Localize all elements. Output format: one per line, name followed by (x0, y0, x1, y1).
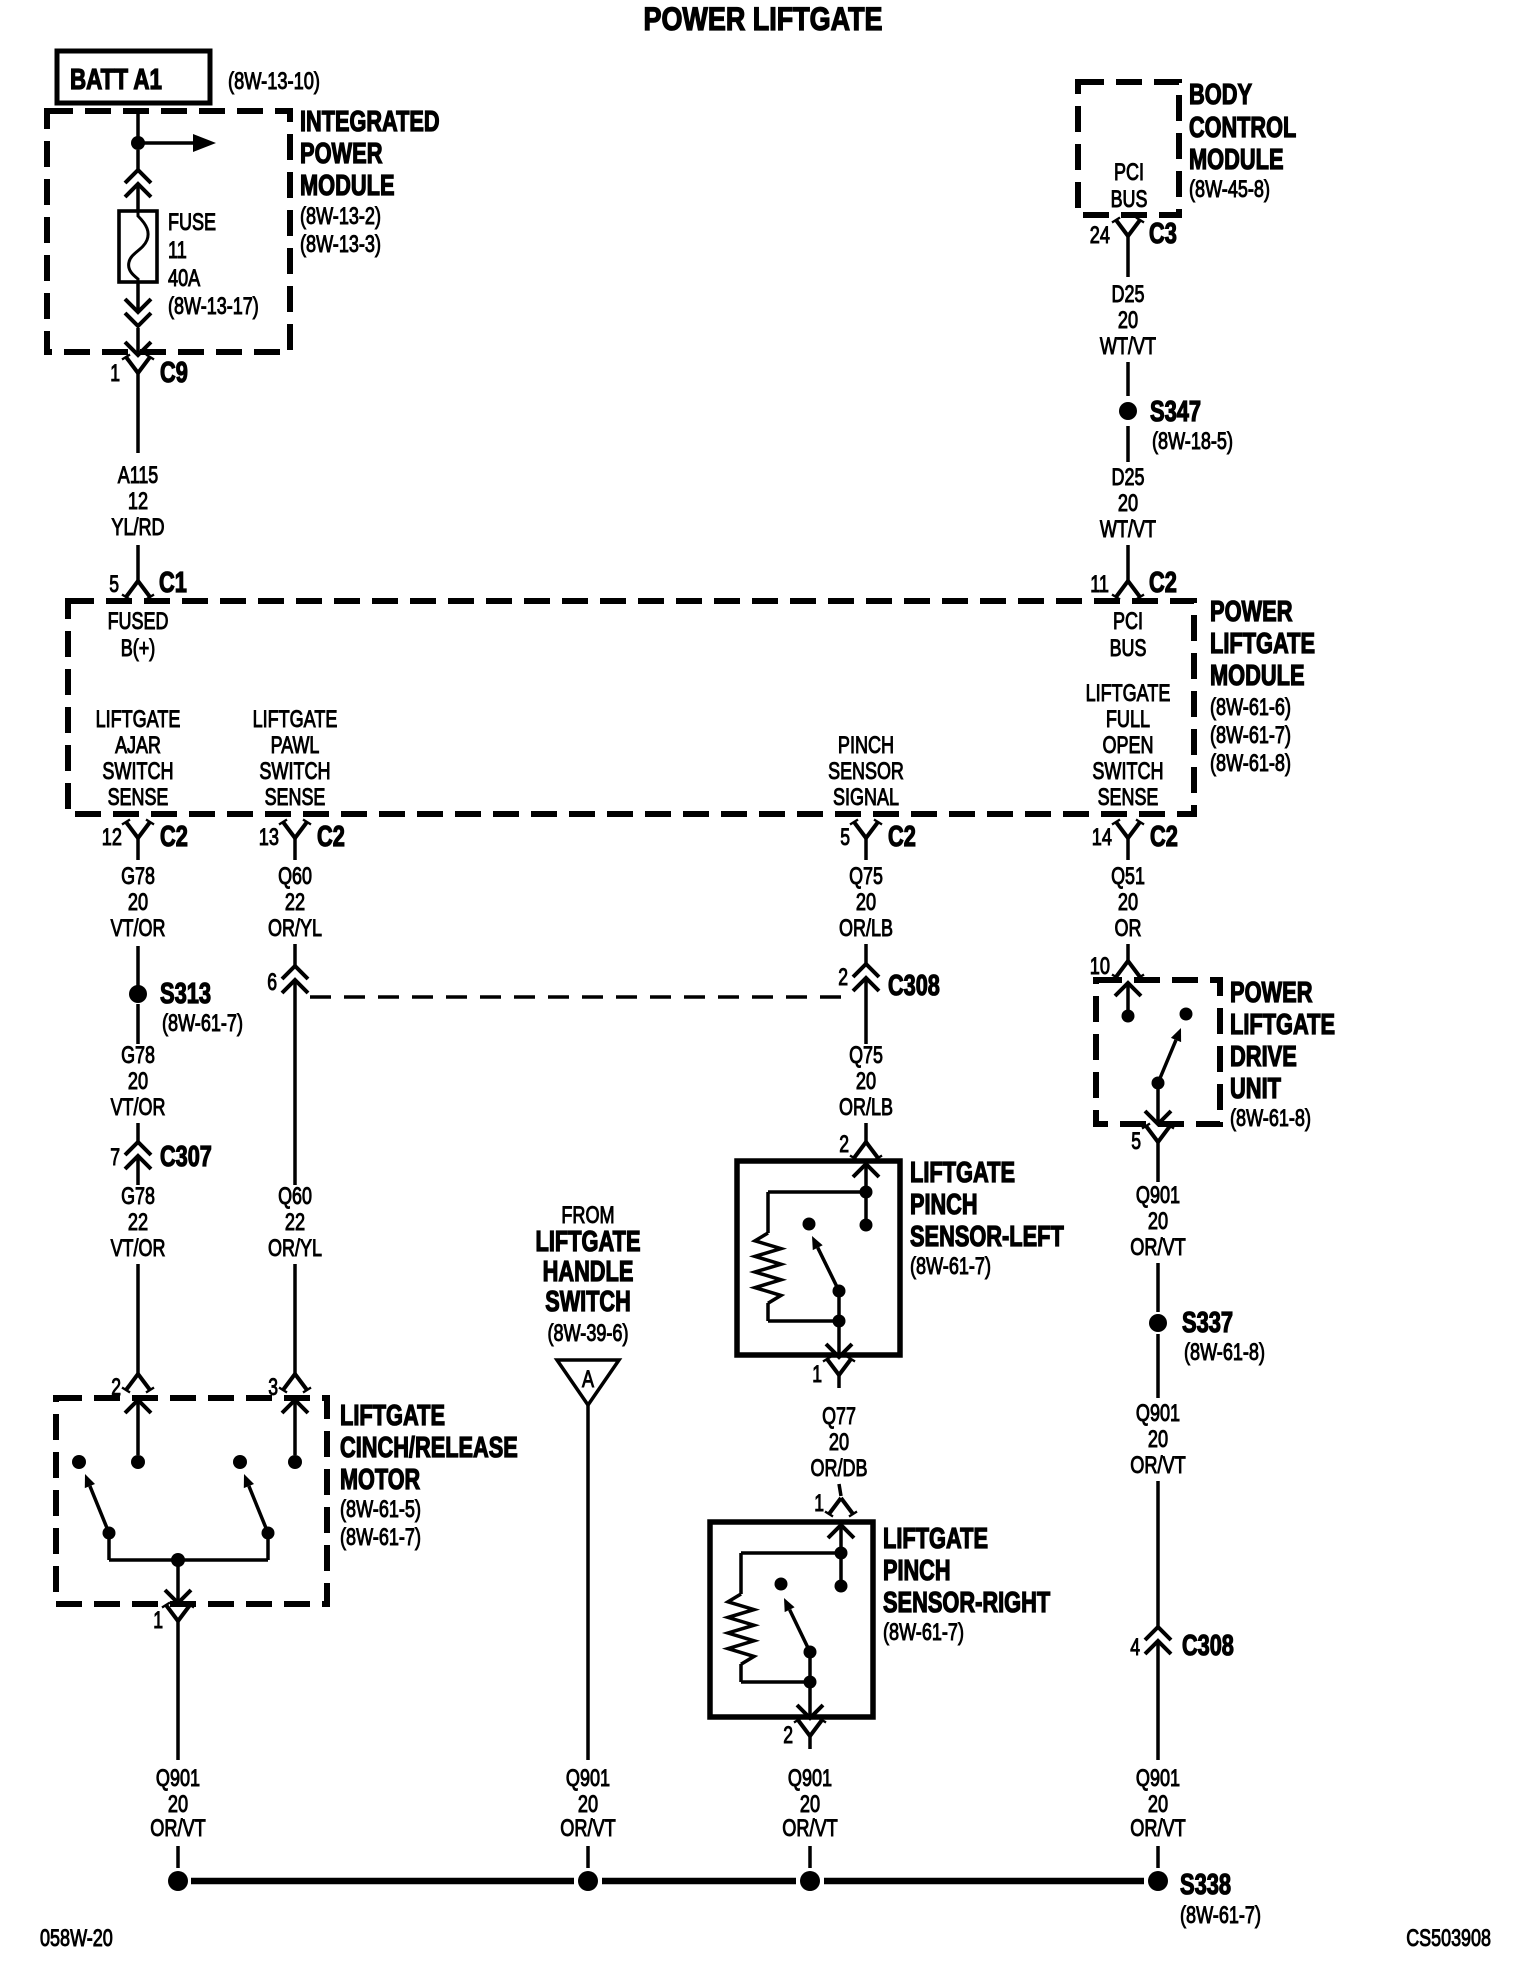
svg-text:20: 20 (128, 1068, 148, 1095)
svg-text:24: 24 (1090, 222, 1110, 249)
svg-text:LIFTGATE: LIFTGATE (910, 1157, 1015, 1189)
svg-text:D25: D25 (1112, 464, 1145, 491)
svg-text:PINCH: PINCH (883, 1555, 951, 1587)
svg-text:(8W-61-8): (8W-61-8) (1230, 1105, 1311, 1132)
svg-text:SENSOR: SENSOR (828, 758, 904, 785)
svg-text:20: 20 (1118, 889, 1138, 916)
svg-text:14: 14 (1092, 824, 1112, 851)
svg-text:D25: D25 (1112, 281, 1145, 308)
svg-text:POWER: POWER (1210, 596, 1293, 628)
svg-text:MODULE: MODULE (1189, 144, 1284, 176)
svg-text:POWER: POWER (1230, 977, 1313, 1009)
svg-text:C307: C307 (160, 1141, 212, 1173)
svg-text:SWITCH: SWITCH (102, 758, 173, 785)
svg-text:C2: C2 (1149, 567, 1177, 599)
svg-text:20: 20 (1118, 490, 1138, 517)
svg-text:PCI: PCI (1114, 159, 1144, 186)
svg-text:LIFTGATE: LIFTGATE (1086, 680, 1171, 707)
svg-text:PINCH: PINCH (910, 1189, 978, 1221)
svg-text:FUSED: FUSED (108, 608, 169, 635)
svg-text:BUS: BUS (1111, 186, 1148, 213)
svg-text:C1: C1 (159, 567, 187, 599)
svg-text:UNIT: UNIT (1230, 1073, 1281, 1105)
svg-text:Q77: Q77 (822, 1403, 856, 1430)
svg-text:LIFTGATE: LIFTGATE (1230, 1009, 1335, 1041)
svg-text:HANDLE: HANDLE (543, 1256, 634, 1288)
svg-text:OR/VT: OR/VT (560, 1815, 616, 1842)
svg-text:OR/VT: OR/VT (782, 1815, 838, 1842)
svg-text:VT/OR: VT/OR (111, 1235, 166, 1262)
svg-text:CINCH/RELEASE: CINCH/RELEASE (340, 1432, 518, 1464)
svg-text:Q901: Q901 (566, 1765, 610, 1792)
svg-text:(8W-61-7): (8W-61-7) (162, 1010, 243, 1037)
svg-text:LIFTGATE: LIFTGATE (883, 1523, 988, 1555)
svg-text:OR/VT: OR/VT (150, 1815, 206, 1842)
svg-text:1: 1 (814, 1490, 824, 1517)
svg-text:PINCH: PINCH (838, 732, 894, 759)
svg-text:(8W-13-17): (8W-13-17) (168, 293, 259, 320)
svg-text:G78: G78 (121, 1183, 155, 1210)
svg-text:12: 12 (102, 824, 122, 851)
svg-text:MODULE: MODULE (300, 170, 395, 202)
svg-text:6: 6 (267, 969, 277, 996)
svg-text:C3: C3 (1149, 218, 1177, 250)
svg-text:(8W-18-5): (8W-18-5) (1152, 428, 1233, 455)
svg-text:OR: OR (1115, 915, 1142, 942)
svg-text:Q901: Q901 (1136, 1400, 1180, 1427)
svg-text:22: 22 (128, 1209, 148, 1236)
svg-text:BODY: BODY (1189, 79, 1252, 111)
svg-text:(8W-45-8): (8W-45-8) (1189, 176, 1270, 203)
svg-text:PCI: PCI (1113, 608, 1143, 635)
svg-text:LIFTGATE: LIFTGATE (536, 1226, 641, 1258)
svg-text:1: 1 (812, 1361, 822, 1388)
svg-text:Q75: Q75 (849, 1042, 883, 1069)
svg-text:20: 20 (829, 1429, 849, 1456)
svg-text:POWER LIFTGATE: POWER LIFTGATE (644, 1, 883, 37)
svg-text:C9: C9 (160, 357, 188, 389)
svg-text:OR/YL: OR/YL (268, 1235, 322, 1262)
svg-text:40A: 40A (168, 265, 200, 292)
svg-text:YL/RD: YL/RD (111, 514, 164, 541)
svg-text:(8W-61-6): (8W-61-6) (1210, 694, 1291, 721)
svg-text:A115: A115 (118, 462, 159, 489)
svg-text:Q901: Q901 (788, 1765, 832, 1792)
svg-text:SENSE: SENSE (265, 784, 326, 811)
svg-text:(8W-61-5): (8W-61-5) (340, 1496, 421, 1523)
svg-text:OR/DB: OR/DB (811, 1455, 868, 1482)
svg-text:10: 10 (1090, 953, 1110, 980)
svg-text:WT/VT: WT/VT (1100, 516, 1156, 543)
svg-text:SENSE: SENSE (108, 784, 169, 811)
svg-text:13: 13 (259, 824, 279, 851)
svg-text:LIFTGATE: LIFTGATE (1210, 628, 1315, 660)
svg-text:MODULE: MODULE (1210, 660, 1305, 692)
svg-text:Q60: Q60 (278, 863, 312, 890)
svg-text:SWITCH: SWITCH (545, 1286, 631, 1318)
svg-text:CONTROL: CONTROL (1189, 112, 1296, 144)
svg-text:VT/OR: VT/OR (111, 1094, 166, 1121)
svg-text:1: 1 (110, 360, 120, 387)
svg-text:S313: S313 (160, 978, 211, 1010)
svg-text:FROM: FROM (561, 1202, 614, 1229)
svg-text:Q901: Q901 (1136, 1765, 1180, 1792)
svg-text:S347: S347 (1150, 396, 1201, 428)
svg-text:DRIVE: DRIVE (1230, 1041, 1297, 1073)
svg-text:20: 20 (168, 1791, 188, 1818)
svg-text:22: 22 (285, 889, 305, 916)
svg-text:(8W-61-7): (8W-61-7) (1210, 722, 1291, 749)
svg-text:S338: S338 (1180, 1869, 1231, 1901)
svg-text:OPEN: OPEN (1103, 732, 1154, 759)
svg-text:PAWL: PAWL (271, 732, 320, 759)
svg-text:OR/VT: OR/VT (1130, 1234, 1186, 1261)
svg-text:11: 11 (168, 237, 187, 264)
svg-text:20: 20 (1148, 1426, 1168, 1453)
svg-text:20: 20 (1118, 307, 1138, 334)
svg-text:(8W-61-8): (8W-61-8) (1210, 750, 1291, 777)
svg-text:(8W-39-6): (8W-39-6) (548, 1320, 629, 1347)
svg-text:Q51: Q51 (1111, 863, 1145, 890)
svg-text:BATT A1: BATT A1 (70, 64, 162, 96)
svg-text:2: 2 (783, 1722, 793, 1749)
svg-text:5: 5 (840, 824, 850, 851)
svg-text:SWITCH: SWITCH (259, 758, 330, 785)
svg-text:20: 20 (1148, 1791, 1168, 1818)
svg-text:SIGNAL: SIGNAL (833, 784, 899, 811)
svg-text:OR/LB: OR/LB (839, 1094, 893, 1121)
svg-text:(8W-61-7): (8W-61-7) (910, 1253, 991, 1280)
svg-text:Q75: Q75 (849, 863, 883, 890)
svg-text:C2: C2 (160, 821, 188, 853)
svg-text:(8W-61-7): (8W-61-7) (1180, 1902, 1261, 1929)
svg-text:C2: C2 (317, 821, 345, 853)
svg-text:(8W-13-2): (8W-13-2) (300, 203, 381, 230)
svg-text:20: 20 (128, 889, 148, 916)
svg-text:SENSE: SENSE (1098, 784, 1159, 811)
svg-text:LIFTGATE: LIFTGATE (340, 1400, 445, 1432)
svg-text:20: 20 (578, 1791, 598, 1818)
svg-text:5: 5 (109, 571, 119, 598)
svg-text:1: 1 (153, 1607, 163, 1634)
svg-text:(8W-13-3): (8W-13-3) (300, 231, 381, 258)
svg-text:BUS: BUS (1110, 635, 1147, 662)
svg-text:MOTOR: MOTOR (340, 1464, 420, 1496)
svg-text:5: 5 (1131, 1128, 1141, 1155)
svg-text:A: A (582, 1366, 594, 1393)
svg-text:20: 20 (856, 1068, 876, 1095)
svg-text:22: 22 (285, 1209, 305, 1236)
svg-text:C308: C308 (888, 970, 940, 1002)
svg-text:C2: C2 (888, 821, 916, 853)
svg-text:FUSE: FUSE (168, 209, 216, 236)
svg-text:FULL: FULL (1106, 706, 1150, 733)
svg-text:12: 12 (128, 488, 148, 515)
svg-text:AJAR: AJAR (115, 732, 161, 759)
svg-text:SENSOR-LEFT: SENSOR-LEFT (910, 1221, 1064, 1253)
svg-text:Q60: Q60 (278, 1183, 312, 1210)
svg-text:G78: G78 (121, 1042, 155, 1069)
svg-text:2: 2 (839, 1131, 849, 1158)
svg-text:VT/OR: VT/OR (111, 915, 166, 942)
svg-text:SWITCH: SWITCH (1092, 758, 1163, 785)
svg-text:C308: C308 (1182, 1630, 1234, 1662)
svg-text:OR/YL: OR/YL (268, 915, 322, 942)
svg-text:LIFTGATE: LIFTGATE (253, 706, 338, 733)
svg-text:WT/VT: WT/VT (1100, 333, 1156, 360)
svg-text:B(+): B(+) (121, 635, 156, 662)
svg-text:20: 20 (800, 1791, 820, 1818)
svg-text:20: 20 (856, 889, 876, 916)
svg-text:20: 20 (1148, 1208, 1168, 1235)
svg-text:LIFTGATE: LIFTGATE (96, 706, 181, 733)
svg-text:INTEGRATED: INTEGRATED (300, 106, 440, 138)
svg-text:(8W-61-7): (8W-61-7) (340, 1524, 421, 1551)
svg-text:C2: C2 (1150, 821, 1178, 853)
svg-text:OR/VT: OR/VT (1130, 1815, 1186, 1842)
svg-text:S337: S337 (1182, 1307, 1233, 1339)
svg-text:4: 4 (1130, 1634, 1140, 1661)
svg-text:OR/LB: OR/LB (839, 915, 893, 942)
svg-text:OR/VT: OR/VT (1130, 1452, 1186, 1479)
svg-text:SENSOR-RIGHT: SENSOR-RIGHT (883, 1587, 1050, 1619)
svg-text:CS503908: CS503908 (1406, 1925, 1491, 1952)
svg-text:058W-20: 058W-20 (40, 1925, 113, 1952)
svg-text:(8W-61-8): (8W-61-8) (1184, 1339, 1265, 1366)
svg-text:G78: G78 (121, 863, 155, 890)
svg-text:POWER: POWER (300, 138, 383, 170)
svg-text:11: 11 (1090, 571, 1109, 598)
svg-text:2: 2 (838, 964, 848, 991)
svg-text:Q901: Q901 (1136, 1182, 1180, 1209)
svg-text:(8W-61-7): (8W-61-7) (883, 1619, 964, 1646)
svg-text:(8W-13-10): (8W-13-10) (228, 68, 320, 95)
svg-text:7: 7 (110, 1144, 120, 1171)
svg-text:Q901: Q901 (156, 1765, 200, 1792)
